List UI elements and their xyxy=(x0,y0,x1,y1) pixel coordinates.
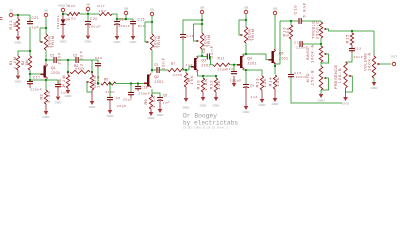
svg-text:GND: GND xyxy=(243,110,251,114)
svg-text:GND: GND xyxy=(157,113,165,117)
svg-text:C5: C5 xyxy=(154,62,158,66)
wire gate3 jog xyxy=(189,67,191,70)
trimmer TR1 100K xyxy=(44,34,47,50)
wire C2 to gain node xyxy=(79,60,93,72)
wire to GND xyxy=(17,31,19,36)
svg-text:6.8nF: 6.8nF xyxy=(302,2,307,18)
wire C21 to gate node xyxy=(29,27,31,52)
svg-text:UB: UB xyxy=(273,6,277,10)
wire drop to R4 row xyxy=(67,60,69,72)
capacitor C7 filter xyxy=(180,35,186,38)
svg-text:100uF: 100uF xyxy=(118,24,130,28)
svg-text:680K: 680K xyxy=(75,67,85,71)
wire source4 down xyxy=(245,70,247,84)
wire cap to R11 xyxy=(210,57,214,65)
svg-text:C10: C10 xyxy=(293,5,298,15)
svg-text:UB: UB xyxy=(86,2,90,6)
wire drain1 to C3 xyxy=(46,59,54,61)
svg-text:GND: GND xyxy=(85,40,93,44)
node drain4 xyxy=(245,53,247,55)
svg-text:R7: R7 xyxy=(171,62,175,66)
wire to volume pot xyxy=(373,31,375,56)
resistor R10 source3 xyxy=(202,76,204,78)
capacitor C18 220pF xyxy=(137,84,139,87)
ground under D6 xyxy=(61,36,66,40)
wire C7 down to gate node xyxy=(182,38,184,40)
svg-text:J201: J201 xyxy=(51,71,60,75)
svg-text:GND: GND xyxy=(89,105,97,109)
wire R7 to gate3 node xyxy=(184,69,189,71)
svg-text:GND: GND xyxy=(148,116,156,120)
wire TR2 to drain2 xyxy=(151,50,153,73)
ground under R3 xyxy=(45,104,47,111)
svg-text:TRIM: TRIM xyxy=(250,29,255,41)
transistor Q1 J201 xyxy=(44,66,46,78)
wire trimmer wrap xyxy=(45,28,47,34)
wire TR4 to drain3 xyxy=(201,49,203,56)
svg-text:GND: GND xyxy=(15,79,23,83)
resistor R3 3.3K source xyxy=(45,80,47,90)
svg-text:R10: R10 xyxy=(196,80,201,90)
ground under C4 xyxy=(108,110,113,114)
resistor R17 100R second filter xyxy=(99,12,112,15)
wire IN to input node xyxy=(13,14,30,16)
pin UB stage3 xyxy=(200,10,204,14)
svg-text:R13: R13 xyxy=(255,78,260,88)
svg-text:C20: C20 xyxy=(90,17,97,21)
svg-text:Q4: Q4 xyxy=(247,56,252,60)
svg-text:GND: GND xyxy=(200,104,208,108)
svg-text:GND: GND xyxy=(272,102,280,106)
svg-text:10K: 10K xyxy=(275,77,280,86)
resistor R7 470K xyxy=(168,68,184,71)
svg-text:C14: C14 xyxy=(119,18,126,22)
potentiometer PRESENCE 10K-B xyxy=(344,62,348,88)
wire drain4 to gate5 xyxy=(246,54,269,60)
wire C13 to presence xyxy=(346,53,353,62)
wire input node down to C21 xyxy=(29,15,31,21)
ground under volume xyxy=(372,82,377,86)
capacitor C1 1uF xyxy=(57,80,59,84)
svg-text:1M: 1M xyxy=(13,23,17,28)
transistor Q2 J201 xyxy=(147,75,149,87)
wire R2 down to gate line xyxy=(29,70,31,80)
ground under R12 xyxy=(215,92,217,97)
svg-text:R6: R6 xyxy=(143,99,148,105)
svg-text:C14: C14 xyxy=(187,34,194,38)
wire C10 to treble xyxy=(301,20,303,22)
wire treble bottom xyxy=(320,38,322,44)
trimmer TR3 wrap xyxy=(239,20,246,35)
resistor R20 100R xyxy=(67,12,80,15)
resistor R2 1M xyxy=(29,51,31,56)
svg-text:20pF: 20pF xyxy=(123,98,132,102)
ground under C12 xyxy=(232,83,237,87)
capacitor C16 coupling xyxy=(92,60,98,63)
wire +9 to rail xyxy=(63,12,67,14)
svg-text:C17: C17 xyxy=(33,76,40,80)
ground under C15 xyxy=(131,36,136,40)
svg-text:R20: R20 xyxy=(68,4,75,8)
wire C16 to gate2 line xyxy=(97,66,99,68)
ground under presence xyxy=(343,97,348,101)
ground under R14 xyxy=(274,89,276,98)
svg-text:+9(ALT): +9(ALT) xyxy=(58,3,68,7)
svg-text:GND: GND xyxy=(213,104,221,108)
svg-text:1N4001: 1N4001 xyxy=(56,15,60,29)
svg-text:Q3: Q3 xyxy=(201,58,206,62)
svg-text:22nF: 22nF xyxy=(56,52,61,65)
capacitor C4 20pF xyxy=(109,84,111,98)
svg-text:GND: GND xyxy=(259,103,267,107)
svg-text:220pF: 220pF xyxy=(230,79,242,83)
ground under R13 xyxy=(261,90,263,99)
svg-text:GND: GND xyxy=(183,106,191,110)
wire mid to ground xyxy=(320,90,322,94)
wire wiper to OUT xyxy=(379,63,391,65)
capacitor C2 2.2nF xyxy=(76,57,78,63)
svg-text:1.5K: 1.5K xyxy=(151,96,156,108)
resistor R13 source4 xyxy=(260,76,263,90)
wire C3 to C2 xyxy=(57,59,77,61)
wire source1 line xyxy=(30,79,58,81)
svg-text:GND: GND xyxy=(371,86,379,90)
ground under C20 xyxy=(86,36,91,40)
resistor R11 220K xyxy=(213,63,230,66)
svg-text:J201: J201 xyxy=(154,80,163,84)
svg-text:10K-B: 10K-B xyxy=(338,68,342,83)
svg-text:C13: C13 xyxy=(354,47,361,51)
ground under R9 xyxy=(185,87,187,98)
wire NFB down from R16 xyxy=(290,39,292,74)
svg-text:GND: GND xyxy=(342,102,350,106)
svg-text:J201: J201 xyxy=(201,63,210,67)
resistor R1 2.2M xyxy=(16,56,19,70)
ground under gain pot xyxy=(90,101,95,105)
svg-text:16K: 16K xyxy=(190,75,194,85)
capacitor C13 39nF xyxy=(351,45,353,48)
svg-text:C6: C6 xyxy=(163,94,167,98)
svg-text:10K: 10K xyxy=(216,80,221,89)
capacitor C15 8nF xyxy=(132,19,134,21)
resistor R9 gate3 to ground xyxy=(185,70,187,73)
svg-text:10nF: 10nF xyxy=(161,57,166,70)
wire UB pin to rail xyxy=(87,11,89,14)
svg-text:UB: UB xyxy=(244,5,248,9)
pin +9(ALT) xyxy=(61,8,65,12)
ground under R6 xyxy=(150,109,152,112)
svg-text:GND: GND xyxy=(60,40,68,44)
svg-text:30nF: 30nF xyxy=(353,55,362,59)
wire treble wiper to volume xyxy=(326,29,374,31)
svg-text:220pF: 220pF xyxy=(138,92,150,96)
resistor R3a 2.2M to ground xyxy=(67,72,69,75)
svg-text:C8: C8 xyxy=(202,48,206,52)
potentiometer MID 25K-B xyxy=(319,66,323,90)
pin UB stage4 xyxy=(244,10,248,14)
capacitor C17 220nF xyxy=(29,80,31,81)
svg-text:GND: GND xyxy=(15,40,23,44)
wire drain2 to C5 xyxy=(152,69,157,71)
svg-text:50K: 50K xyxy=(286,27,290,37)
svg-text:R17: R17 xyxy=(98,4,105,8)
resistor R22 1M input pulldown xyxy=(17,15,19,19)
transistor Q4 J201 xyxy=(240,56,242,68)
potentiometer TREBLE 250K-C xyxy=(319,22,323,38)
svg-text:GND: GND xyxy=(318,99,326,103)
svg-text:9B: 9B xyxy=(124,6,128,10)
ground under C9 xyxy=(244,106,249,110)
svg-text:1.8K: 1.8K xyxy=(203,79,208,91)
svg-text:1M: 1M xyxy=(25,61,29,66)
pin IN xyxy=(9,13,13,17)
svg-text:GND: GND xyxy=(130,40,138,44)
wire TR3 to drain4 xyxy=(245,43,247,54)
svg-text:IN: IN xyxy=(10,8,13,12)
node trimmer top xyxy=(45,27,47,29)
capacitor C10 6.8nF xyxy=(299,18,301,24)
capacitor C19 NFB 220nF xyxy=(288,75,294,77)
svg-text:.1uF: .1uF xyxy=(29,25,38,29)
svg-text:100: 100 xyxy=(69,16,76,20)
svg-text:C15: C15 xyxy=(138,18,145,22)
svg-text:OUT: OUT xyxy=(391,55,398,59)
wire UB to TR3 xyxy=(245,14,247,27)
resistor R5 470R xyxy=(101,82,116,85)
pin UB stage5 xyxy=(273,11,277,15)
wire source3 row xyxy=(198,72,217,76)
capacitor C8 22nF series xyxy=(207,54,209,60)
ground under C6 xyxy=(158,109,163,113)
wire presence to ground xyxy=(345,88,347,92)
svg-text:1uF: 1uF xyxy=(251,95,258,99)
capacitor C3 22nF xyxy=(54,57,56,63)
resistor R14 source5 xyxy=(273,75,276,89)
svg-text:C1: C1 xyxy=(60,84,64,88)
ground under C1 xyxy=(56,97,61,101)
capacitor C9 1uF source4 xyxy=(243,85,249,88)
capacitor C6 1uF xyxy=(157,98,163,101)
wire volume to ground xyxy=(373,78,375,82)
diode D6 1N4001 xyxy=(62,14,64,19)
svg-text:C2: C2 xyxy=(73,53,77,57)
ground under R3a xyxy=(67,88,69,90)
svg-text:3.3K: 3.3K xyxy=(46,91,51,103)
svg-text:100uF: 100uF xyxy=(89,24,101,28)
wire trimmer to drain node xyxy=(45,50,47,63)
svg-text:25K-B: 25K-B xyxy=(309,70,314,85)
wire source5 down xyxy=(274,64,276,74)
wire UB to TR4 xyxy=(201,14,203,33)
node stack input xyxy=(280,20,299,22)
wire gate1 to Q1 xyxy=(30,73,41,75)
potentiometer BASS 100K-A xyxy=(320,44,322,46)
svg-text:UB: UB xyxy=(200,5,204,9)
wire D6 to ground xyxy=(62,24,64,35)
svg-text:100K-A: 100K-A xyxy=(366,53,371,71)
svg-text:R11: R11 xyxy=(218,57,225,61)
ground under mid pot xyxy=(319,94,324,98)
ground under R10 xyxy=(202,92,204,97)
trimmer TR4 100K xyxy=(200,33,203,49)
resistor R16 50K xyxy=(290,21,292,25)
svg-text:10K: 10K xyxy=(262,78,267,87)
wire rail to UB node xyxy=(80,13,99,15)
trimmer TR2 100K xyxy=(150,34,153,50)
svg-text:100K-A: 100K-A xyxy=(309,45,314,63)
svg-text:1uF: 1uF xyxy=(163,100,170,104)
svg-text:Dr Boogey: Dr Boogey xyxy=(183,113,217,120)
wire C11 to bass xyxy=(304,43,321,45)
svg-text:TRIM: TRIM xyxy=(206,35,211,47)
svg-text:220nF: 220nF xyxy=(30,88,42,92)
svg-text:GND: GND xyxy=(107,114,115,118)
wire C5 to R7 xyxy=(160,69,169,71)
wire R5 to Q2 gate xyxy=(116,83,144,85)
resistor R12 source3b xyxy=(215,76,217,78)
wire UB branch to C7 xyxy=(183,20,202,34)
pin 9A stage2 xyxy=(150,12,154,16)
svg-text:C12: C12 xyxy=(226,67,233,71)
wire R1 to ground xyxy=(17,70,19,75)
svg-text:J201: J201 xyxy=(247,61,256,65)
capacitor C14 100uF xyxy=(116,19,118,21)
svg-text:2.2nF: 2.2nF xyxy=(78,50,83,66)
capacitor C20 100uF filter xyxy=(87,14,89,21)
wire to C6 xyxy=(152,93,160,97)
wire gate node left xyxy=(18,51,30,56)
resistor R15 47K xyxy=(351,31,353,33)
node gate1 xyxy=(29,50,31,52)
svg-text:C4: C4 xyxy=(116,96,120,100)
capacitor C11 220nF xyxy=(300,41,302,47)
svg-text:470K: 470K xyxy=(105,90,115,94)
svg-text:C18: C18 xyxy=(141,85,148,89)
transistor Q5 J201 xyxy=(272,51,274,63)
potentiometer GAIN 1M-A xyxy=(91,72,93,75)
svg-text:GND: GND xyxy=(43,115,51,119)
svg-text:Q2: Q2 xyxy=(154,75,159,79)
wire NFB loop xyxy=(290,77,292,78)
svg-text:R5: R5 xyxy=(104,78,108,82)
wire 9A to TR2 xyxy=(151,16,153,22)
ground under C14 xyxy=(115,36,120,40)
capacitor C21 .1uF xyxy=(27,22,33,24)
wire gain pot to ground xyxy=(91,90,93,101)
svg-text:R15: R15 xyxy=(345,34,350,44)
wire source2 down xyxy=(151,89,152,95)
svg-text:TRIM: TRIM xyxy=(156,36,161,48)
svg-text:19-DEC-2006 11:26:32 Sheet 1: 19-DEC-2006 11:26:32 Sheet 1 xyxy=(183,126,229,129)
pin 9B xyxy=(124,11,128,15)
svg-text:C21: C21 xyxy=(32,16,39,20)
wire source4 branch xyxy=(246,70,262,76)
wire 9B pin down xyxy=(125,15,127,19)
svg-text:1uF: 1uF xyxy=(61,91,68,95)
pin UB xyxy=(86,7,90,11)
svg-text:2.2M: 2.2M xyxy=(13,57,17,69)
trimmer TR4 wrap xyxy=(194,24,203,41)
trimmer TR2 wrap wire xyxy=(145,22,152,42)
transistor Q3 J201 xyxy=(194,58,196,70)
wire bass to mid xyxy=(320,62,322,66)
wire TR2 top xyxy=(151,22,153,34)
capacitor C5 coupling xyxy=(157,67,159,73)
svg-text:R12: R12 xyxy=(209,80,214,90)
svg-text:Q5: Q5 xyxy=(279,51,284,55)
svg-text:Q1: Q1 xyxy=(51,66,56,70)
trimmer TR3 100K xyxy=(244,27,247,43)
node drain1 xyxy=(45,59,47,61)
pin 9A supply stage1 xyxy=(44,13,48,17)
net label stub xyxy=(0,17,2,19)
wire source5 to stack feed xyxy=(275,21,280,64)
ground under R1 xyxy=(16,76,21,80)
svg-text:470K: 470K xyxy=(173,73,183,77)
wire R11 to gate4 xyxy=(230,64,237,66)
svg-text:C11: C11 xyxy=(294,41,301,45)
svg-text:GND: GND xyxy=(114,40,122,44)
svg-text:9A: 9A xyxy=(44,8,48,12)
svg-text:R14: R14 xyxy=(268,77,273,87)
svg-text:100: 100 xyxy=(99,9,106,13)
svg-text:C16: C16 xyxy=(95,56,102,60)
resistor R4 680K xyxy=(70,70,90,73)
capacitor C12 220pF gate4 xyxy=(233,65,235,72)
wire 9A to trimmer xyxy=(45,17,47,28)
svg-text:250K-C: 250K-C xyxy=(314,21,319,39)
wire drain3 right xyxy=(198,55,208,58)
potentiometer VOLUME 100K-A xyxy=(372,56,376,78)
svg-text:TRIM: TRIM xyxy=(50,36,55,48)
svg-text:R3: R3 xyxy=(39,94,44,100)
svg-text:9A: 9A xyxy=(150,7,154,11)
resistor R6 source2 xyxy=(149,95,152,109)
wire to 9B node xyxy=(112,14,133,19)
ground under R22 xyxy=(16,37,21,41)
capacitor C19 snubber xyxy=(130,84,132,93)
svg-text:8nF: 8nF xyxy=(138,24,145,28)
pin OUT xyxy=(392,62,396,66)
svg-text:20pF: 20pF xyxy=(117,104,126,108)
svg-text:GND: GND xyxy=(55,101,63,105)
svg-text:C3: C3 xyxy=(50,53,54,57)
wire UB to drain5 xyxy=(274,15,276,50)
